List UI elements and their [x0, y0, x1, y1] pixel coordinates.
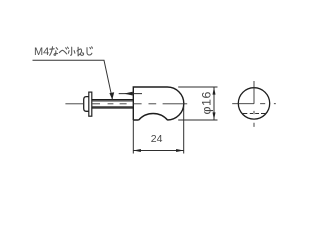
front view circle: [238, 88, 269, 119]
front view hidden notch line: [242, 113, 266, 115]
knob body outline (side view): [133, 87, 184, 120]
front view vertical centerline: [253, 81, 255, 127]
dimension phi16 arrowhead bottom: [213, 112, 216, 120]
front view horizontal centerline: [232, 103, 276, 105]
kana べ: [59, 47, 68, 54]
svg-text:M4: M4: [34, 46, 49, 58]
leader line for label: [33, 60, 113, 99]
dimension phi16 line: [213, 87, 215, 120]
dimension 24 extension line right: [183, 107, 185, 154]
dimension 24 arrowhead right: [176, 149, 184, 152]
insertion arrow line: [119, 93, 142, 95]
svg-text:24: 24: [151, 133, 163, 145]
dimension 24 extension line left: [132, 120, 134, 154]
dimension phi16 arrowhead top: [213, 87, 216, 95]
axis centerline: [65, 103, 187, 105]
insertion arrowhead: [124, 92, 133, 96]
kana ね: [77, 47, 84, 56]
dimension phi16 extension line bottom: [178, 119, 217, 121]
kana な: [50, 47, 58, 56]
kana 小: [68, 47, 75, 55]
screw shaft thread root lines: [92, 101, 134, 106]
leader arrowhead: [109, 92, 114, 99]
dimension 24 line: [133, 150, 183, 152]
kana じ: [87, 47, 93, 55]
dimension phi16 extension line top: [178, 86, 217, 88]
dimension 24 arrowhead left: [133, 149, 141, 152]
screw shaft thread crest lines: [92, 100, 134, 108]
svg-text:φ16: φ16: [200, 91, 214, 114]
screw washer: [89, 92, 92, 116]
screw pan head dome: [84, 97, 89, 112]
